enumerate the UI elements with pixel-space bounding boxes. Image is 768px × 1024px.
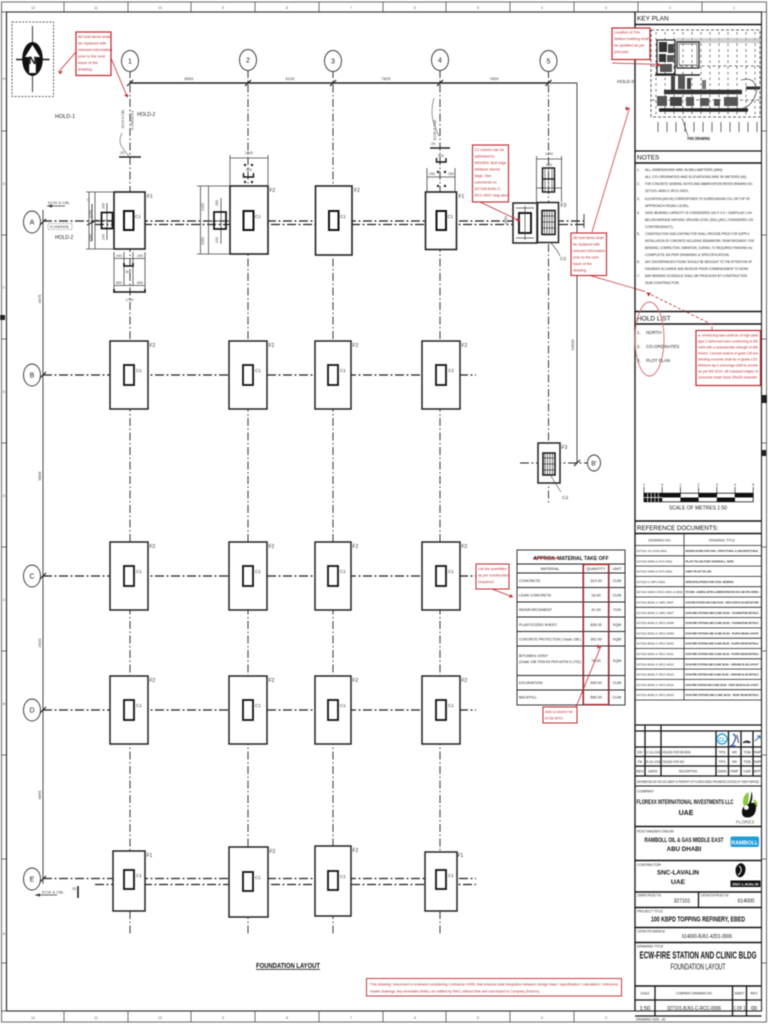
svg-text:DD: DD [637, 751, 643, 755]
svg-text:optimised to: optimised to [475, 155, 495, 159]
svg-text:REV: REV [751, 992, 759, 996]
ramboll logo [731, 837, 760, 848]
svg-text:3: 3 [716, 483, 718, 487]
svg-text:449.00: 449.00 [590, 681, 602, 685]
grid line 3 [332, 70, 334, 936]
right vertical dimension line 23500 [576, 83, 578, 463]
svg-text:blinding concrete shall be of: blinding concrete shall be of grade C20. [698, 358, 758, 362]
foundation F2 A3 [316, 186, 361, 255]
svg-text:23500: 23500 [570, 339, 575, 351]
svg-text:drawing.: drawing. [78, 67, 93, 72]
svg-text:850: 850 [116, 281, 122, 285]
svg-text:1 OF 1: 1 OF 1 [734, 1006, 746, 1012]
disclaimer strip [635, 785, 762, 787]
svg-text:7800: 7800 [490, 76, 500, 81]
svg-text:327101-C-SPC-0001: 327101-C-SPC-0001 [637, 580, 666, 584]
svg-text:C: C [87, 198, 90, 202]
svg-text:D: D [29, 708, 34, 715]
svg-text:be updated as per: be updated as per [614, 44, 645, 48]
svg-text:250: 250 [448, 172, 454, 176]
svg-text:SUB-CONTRACTOR.: SUB-CONTRACTOR. [645, 281, 680, 285]
svg-text:C1: C1 [255, 703, 261, 708]
svg-text:issue of the: issue of the [78, 60, 98, 65]
svg-text:5806: 5806 [37, 471, 42, 481]
svg-text:3.: 3. [637, 197, 640, 201]
svg-text:relevant information: relevant information [78, 47, 112, 52]
svg-text:DATE: DATE [648, 770, 658, 774]
red note box mid (can be optimised) [473, 145, 509, 202]
svg-text:CONTRACTOR: CONTRACTOR [637, 863, 661, 867]
revision table [635, 725, 762, 776]
svg-text:SAFE BEARING CAPACITY IS CONSI: SAFE BEARING CAPACITY IS CONSIDERED 343 … [645, 211, 752, 215]
svg-text:CAR: CAR [743, 770, 751, 774]
svg-text:DWN: DWN [718, 770, 727, 774]
A2 top dim 2000 [230, 155, 268, 186]
svg-text:240: 240 [137, 254, 143, 258]
svg-text:C1: C1 [340, 703, 346, 708]
svg-text:BITUMEN JOINT: BITUMEN JOINT [519, 654, 549, 658]
svg-text:327101-BJ61-C-RCC-0009: 327101-BJ61-C-RCC-0009 [637, 631, 675, 635]
svg-text:SQM: SQM [613, 623, 622, 627]
svg-text:ANY DISCREPANCIES FOUND SHOULD: ANY DISCREPANCIES FOUND SHOULD BE BROUGH… [645, 260, 753, 264]
svg-text:2920: 2920 [37, 638, 42, 648]
svg-text:FOUNDATION LAYOUT: FOUNDATION LAYOUT [671, 963, 726, 972]
svg-text:F2: F2 [353, 678, 359, 684]
svg-text:MATERIAL: MATERIAL [541, 567, 560, 571]
svg-text:FOUNDATION LAYOUT: FOUNDATION LAYOUT [256, 961, 320, 970]
svg-text:EXCAVATION: EXCAVATION [519, 681, 543, 685]
foundation F2 B4 [422, 341, 468, 409]
svg-text:Minimum lap & anchorage shall: Minimum lap & anchorage shall be provide [698, 364, 758, 368]
svg-text:1: 1 [128, 59, 132, 66]
svg-text:2.: 2. [637, 344, 641, 349]
svg-text:ECW & CBL: ECW & CBL [48, 200, 71, 205]
snc-lavalin logo [731, 863, 761, 887]
svg-text:1.: 1. [637, 168, 640, 172]
svg-text:DESCRIPTION: DESCRIPTION [679, 770, 697, 774]
svg-text:5: 5 [477, 1016, 479, 1020]
svg-text:A: A [30, 220, 35, 227]
svg-text:NOTES: NOTES [637, 155, 660, 162]
svg-text:3: 3 [331, 59, 335, 66]
svg-text:CO-ORDINATES: CO-ORDINATES [646, 344, 679, 349]
foundation F1 E2 [229, 847, 276, 917]
svg-text:CUM: CUM [613, 579, 622, 583]
svg-text:F2: F2 [269, 544, 275, 550]
svg-text:THIS DRAWING: THIS DRAWING [687, 136, 710, 141]
svg-text:REV: REV [636, 770, 644, 774]
right ruler ticks [762, 131, 767, 963]
A2 left dim band [197, 186, 230, 254]
red note box top-left [76, 32, 111, 76]
svg-text:SNC·LAVALIN: SNC·LAVALIN [732, 882, 759, 887]
svg-text:UAE: UAE [679, 810, 694, 817]
svg-text:F2: F2 [353, 343, 359, 349]
grid bubble 5 [540, 51, 557, 72]
row A left annotation EW &amp; CBL [47, 205, 65, 207]
svg-text:F2: F2 [150, 678, 156, 684]
svg-text:850: 850 [137, 281, 143, 285]
svg-text:BENDING, COMPACTION, VIBRATION: BENDING, COMPACTION, VIBRATION, CURING, … [645, 246, 753, 250]
svg-text:N: N [29, 55, 37, 67]
svg-text:KR: KR [732, 760, 737, 764]
foundation F3 B'5 [538, 443, 568, 501]
svg-text:C1: C1 [448, 569, 454, 574]
svg-text:C2: C2 [560, 256, 566, 262]
svg-text:6: 6 [414, 1016, 416, 1020]
red hold note box [696, 331, 761, 386]
svg-text:1: 1 [679, 483, 681, 487]
north arrow [32, 26, 34, 92]
svg-text:2: 2 [246, 58, 250, 65]
svg-text:1: 1 [643, 483, 645, 487]
svg-text:614000-BJ61-42D1-0006: 614000-BJ61-42D1-0006 [682, 934, 732, 940]
svg-text:C1: C1 [136, 569, 142, 574]
svg-text:4449 with a characteristic str: 4449 with a characteristic strength of 4… [698, 346, 758, 350]
svg-text:DESIGN BASIS FOR CIVIL, STRUCT: DESIGN BASIS FOR CIVIL, STRUCTURAL & ARC… [686, 549, 759, 553]
row bubble B [24, 364, 41, 386]
svg-text:5: 5 [547, 59, 551, 66]
grid line 2 [247, 70, 249, 936]
svg-text:ECW-FIRE STATION AND CLINIC BL: ECW-FIRE STATION AND CLINIC BLDG [640, 951, 757, 962]
svg-text:RCC-0007 dwg also.: RCC-0007 dwg also. [475, 194, 509, 198]
svg-text:3: 3 [605, 6, 607, 10]
svg-text:LEAN CONCRETE: LEAN CONCRETE [519, 594, 552, 598]
svg-text:5: 5 [477, 6, 479, 10]
foundation F1 A4 [426, 192, 465, 250]
svg-text:327101-0000-G-PLT-0001: 327101-0000-G-PLT-0001 [637, 559, 673, 563]
row centerline E [43, 878, 476, 880]
grid bubble 4 [432, 50, 449, 71]
A4 top dim 250/500 [427, 168, 455, 192]
svg-text:FA: FA [638, 760, 643, 764]
svg-text:6100: 6100 [286, 76, 296, 81]
left edge centring mark [0, 315, 5, 320]
svg-text:C1: C1 [136, 703, 142, 708]
A1 bottom dim detail [114, 252, 145, 293]
svg-text:APPROACH ROAD LEVEL.: APPROACH ROAD LEVEL. [645, 204, 690, 208]
svg-text:plot plan.: plot plan. [614, 50, 629, 54]
svg-text:be replaced with: be replaced with [78, 41, 106, 46]
svg-text:HOLD LIST: HOLD LIST [637, 316, 671, 323]
svg-text:STD DWG - GENERAL NOTES & ABBR: STD DWG - GENERAL NOTES & ABBREVATION FO… [686, 590, 759, 594]
svg-text:12: 12 [31, 6, 35, 10]
svg-text:7: 7 [350, 6, 352, 10]
red leader to building [612, 63, 661, 65]
svg-text:8: 8 [286, 6, 288, 10]
svg-text:327101-BJ61-C-RCC-0012: 327101-BJ61-C-RCC-0012 [637, 662, 675, 666]
svg-text:RAMBOLL OIL & GAS MIDDLE EAST: RAMBOLL OIL & GAS MIDDLE EAST [645, 837, 724, 844]
svg-text:C1: C1 [448, 703, 454, 708]
svg-text:TPS: TPS [719, 751, 727, 755]
svg-text:issue of the: issue of the [573, 262, 592, 266]
hold list header [635, 311, 762, 313]
svg-text:PLOT PLAN: PLOT PLAN [646, 358, 670, 363]
svg-text:327101-BJ61-C-RCC-0013: 327101-BJ61-C-RCC-0013 [637, 673, 675, 677]
svg-text:All hold items shall: All hold items shall [573, 236, 604, 240]
top dimension line [130, 82, 549, 84]
row centerline B [43, 374, 476, 376]
svg-text:KEY PLAN: KEY PLAN [637, 16, 669, 23]
hold items [637, 330, 679, 363]
bottom ruler band [2, 1010, 636, 1012]
svg-text:as per BS 8110. All exposed ed: as per BS 8110. All exposed edges of [698, 370, 759, 374]
foundation F2 D1 [110, 676, 156, 744]
svg-text:BELOW AVERAGE NATURAL GROUND L: BELOW AVERAGE NATURAL GROUND LEVEL (NGL)… [645, 218, 753, 222]
row centerline D [43, 709, 476, 711]
svg-text:2: 2 [698, 483, 700, 487]
red note box right of grid5 [571, 233, 607, 276]
svg-text:C1: C1 [255, 569, 261, 574]
svg-text:327101-BJ61-C-RCC-0011: 327101-BJ61-C-RCC-0011 [637, 652, 674, 656]
top ruler band [2, 11, 767, 13]
svg-text:2.: 2. [637, 182, 640, 186]
svg-text:RAMBOLL: RAMBOLL [731, 840, 759, 846]
svg-text:25: 25 [120, 151, 124, 155]
A1 left dim band [86, 192, 114, 249]
svg-text:1050: 1050 [504, 216, 508, 224]
foundation F3mid A between 4 and 5 [504, 203, 537, 243]
svg-text:C1: C1 [340, 874, 346, 879]
svg-text:sequence: sequence [478, 580, 494, 584]
svg-text:C1: C1 [255, 875, 261, 880]
svg-text:8500: 8500 [185, 76, 195, 81]
svg-text:SCALE: SCALE [641, 992, 651, 996]
svg-text:F2: F2 [354, 188, 360, 194]
svg-text:PROJECT MANAGEMENT CONSULTANT: PROJECT MANAGEMENT CONSULTANT [637, 830, 674, 834]
svg-text:4050: 4050 [89, 234, 93, 242]
svg-text:prior to the next: prior to the next [78, 54, 106, 59]
svg-text:ECW-FIRE STATION AND CLINIC BL: ECW-FIRE STATION AND CLINIC BLDG - FOUND… [686, 621, 759, 625]
svg-text:500: 500 [438, 154, 444, 158]
svg-text:4: 4 [541, 1016, 543, 1020]
svg-text:KR: KR [732, 751, 737, 755]
svg-text:327101-4400-C-RCC-0001.: 327101-4400-C-RCC-0001. [645, 189, 689, 193]
svg-text:SHEET: SHEET [735, 992, 745, 996]
svg-text:1: 1 [733, 6, 735, 10]
svg-text:C1: C1 [255, 214, 261, 219]
svg-text:F2: F2 [150, 343, 156, 349]
key plan caption [682, 118, 688, 136]
svg-text:N/mm2. Concrete shall be of gr: N/mm2. Concrete shall be of grade C35 an… [698, 352, 758, 356]
svg-text:327101-BJ61-C-RCC-0008: 327101-BJ61-C-RCC-0008 [637, 621, 675, 625]
svg-text:(Grade 10B ITEM AS PER ASTM D: (Grade 10B ITEM AS PER ASTM D 1751) [519, 660, 582, 664]
svg-text:X: X [752, 820, 755, 825]
25 tick at grid1 [119, 156, 141, 158]
svg-text:B: B [30, 373, 35, 380]
svg-text:10: 10 [158, 6, 162, 10]
svg-text:327101-BJ61-C-RCC-0006: 327101-BJ61-C-RCC-0006 [667, 1006, 721, 1012]
svg-text:TDB: TDB [743, 760, 751, 764]
svg-text:C1: C1 [136, 368, 142, 373]
svg-text:5: 5 [752, 483, 754, 487]
scale bar [644, 487, 753, 497]
svg-text:4.: 4. [637, 211, 640, 215]
red leader to grid 1 [111, 58, 128, 98]
svg-text:500: 500 [246, 168, 252, 172]
row E left annotation [35, 894, 57, 896]
svg-text:F2: F2 [353, 848, 359, 854]
project number row [698, 892, 700, 908]
reference table [635, 534, 762, 701]
svg-text:76.00: 76.00 [591, 659, 601, 663]
svg-text:ISSUED FOR IDC: ISSUED FOR IDC [663, 760, 685, 764]
svg-text:ECW-FIRE STATION AND CLINIC BL: ECW-FIRE STATION AND CLINIC BLDG - GROUN… [686, 662, 759, 666]
svg-text:B': B' [591, 461, 597, 468]
svg-text:SPECIFICATION FOR CIVIL WORKS: SPECIFICATION FOR CIVIL WORKS [686, 580, 734, 584]
svg-text:240: 240 [116, 254, 122, 258]
svg-text:List the quantities: List the quantities [478, 567, 507, 571]
svg-text:09-JUL-2018: 09-JUL-2018 [646, 760, 661, 764]
row bubble E [24, 868, 41, 890]
svg-text:as per construction: as per construction [478, 574, 509, 578]
left vertical dimension line [42, 210, 44, 884]
svg-text:7825: 7825 [382, 76, 392, 81]
row centerline A doubled [43, 220, 584, 222]
svg-text:ECW & CBL: ECW & CBL [42, 890, 65, 895]
svg-text:F2: F2 [269, 678, 275, 684]
svg-text:F1: F1 [458, 853, 464, 859]
svg-text:C2 column can be: C2 column can be [475, 148, 505, 152]
foundation F2 D3 [315, 676, 359, 744]
svg-text:DRAWING SIZE : A1: DRAWING SIZE : A1 [636, 1018, 666, 1022]
svg-text:10: 10 [158, 1016, 162, 1020]
svg-text:CONSTRUCTION SUB-CONTRACTOR SH: CONSTRUCTION SUB-CONTRACTOR SHALL PROVID… [645, 232, 750, 236]
svg-text:REINFORCEMENT: REINFORCEMENT [519, 608, 553, 612]
svg-text:C1: C1 [448, 214, 454, 219]
key plan lower tick comb [658, 122, 757, 132]
svg-text:COMPANY DRAWING NO: COMPANY DRAWING NO [676, 992, 712, 996]
svg-text:500x500. Bolt edge: 500x500. Bolt edge [475, 161, 507, 165]
svg-text:ALL DIMENSIONS ARE IN MILLIMET: ALL DIMENSIONS ARE IN MILLIMETERS (MM). [645, 168, 723, 172]
svg-text:ECW-FIRE STATION AND CLINIC BL: ECW-FIRE STATION AND CLINIC BLDG - PLINT… [686, 642, 759, 646]
svg-text:C1: C1 [255, 368, 261, 373]
key plan top hatch band [676, 38, 760, 43]
foundation F1 E4 [425, 852, 464, 911]
svg-text:400: 400 [546, 163, 552, 167]
svg-text:C2: C2 [562, 495, 568, 501]
grid line 5 [548, 70, 550, 505]
svg-text:1:50: 1:50 [640, 1006, 651, 1012]
svg-text:ALL CO-ORDINATES AND ELEVATION: ALL CO-ORDINATES AND ELEVATIONS ARE IN M… [645, 175, 747, 179]
svg-text:12: 12 [31, 1016, 35, 1020]
svg-text:INSTALLATION OF CONCRETE INCLU: INSTALLATION OF CONCRETE INCLUDING REBAR… [645, 239, 754, 243]
left ruler band [2, 131, 7, 963]
svg-text:7: 7 [350, 1016, 352, 1020]
svg-text:3: 3 [605, 1016, 607, 1020]
svg-text:8: 8 [286, 1016, 288, 1020]
svg-text:F2: F2 [270, 849, 276, 855]
red key plan box [612, 28, 650, 60]
svg-text:Add a column for: Add a column for [545, 710, 574, 714]
svg-text:ECW-FIRE STATION AND CLINIC BL: ECW-FIRE STATION AND CLINIC BLDG - GRD F… [686, 601, 760, 605]
svg-text:CUM: CUM [613, 696, 622, 700]
key plan dashed boundary [651, 30, 760, 117]
svg-text:ELEVATION (400.00) CORRESPONDS: ELEVATION (400.00) CORRESPONDS TO SURROU… [645, 197, 751, 201]
svg-text:327101-4400-C-RCC-0001 & 0002: 327101-4400-C-RCC-0001 & 0002 [637, 590, 683, 594]
svg-text:327101-BJ61-C-ARC-0007: 327101-BJ61-C-ARC-0007 [637, 601, 674, 605]
svg-text:PROJECT TITLE: PROJECT TITLE [637, 910, 664, 914]
svg-text:313.00: 313.00 [590, 579, 602, 583]
svg-text:500: 500 [126, 270, 132, 274]
svg-text:16.00: 16.00 [591, 594, 601, 598]
svg-text:F2: F2 [462, 343, 468, 349]
svg-text:ECW-FIRE STATION AND CLINIC BL: ECW-FIRE STATION AND CLINIC BLDG - ROOF … [686, 683, 759, 687]
svg-text:be replaced with: be replaced with [573, 243, 600, 247]
svg-text:drawing.: drawing. [573, 269, 587, 273]
svg-text:628.00: 628.00 [590, 623, 602, 627]
svg-text:7.: 7. [637, 274, 640, 278]
svg-text:CONTINGENCY).: CONTINGENCY). [645, 225, 674, 229]
svg-text:C: C [29, 574, 34, 581]
svg-text:CUM: CUM [613, 681, 622, 685]
panel left border [634, 12, 636, 1011]
svg-text:4475: 4475 [37, 294, 42, 304]
svg-text:11: 11 [94, 1016, 98, 1020]
svg-text:F2: F2 [462, 678, 468, 684]
svg-text:327101-JC-ACE-0001: 327101-JC-ACE-0001 [637, 549, 668, 553]
svg-text:ECW-FIRE STATION AND CLINIC BL: ECW-FIRE STATION AND CLINIC BLDG - PLINT… [686, 652, 759, 656]
svg-text:556.00: 556.00 [590, 696, 602, 700]
svg-text:17-JUL-2018: 17-JUL-2018 [646, 751, 661, 755]
svg-text:4955: 4955 [37, 790, 42, 800]
svg-text:RMP: RMP [753, 760, 762, 764]
svg-text:ABU DHABI: ABU DHABI [667, 846, 702, 853]
red note list quantities [476, 564, 509, 589]
revision rows [636, 751, 761, 774]
svg-text:G: G [3, 182, 6, 186]
svg-text:25: 25 [431, 142, 435, 146]
svg-text:260: 260 [215, 200, 219, 206]
svg-text:4: 4 [541, 6, 543, 10]
svg-text:PLOT PLAN FOR OVERALL SITE: PLOT PLAN FOR OVERALL SITE [686, 559, 734, 563]
svg-text:INFORMATION ON THIS DOCUMENT I: INFORMATION ON THIS DOCUMENT IS PROPERTY… [637, 780, 759, 784]
bottom row [635, 986, 762, 1016]
svg-text:ECW & CBL: ECW & CBL [121, 109, 125, 128]
svg-text:E: E [30, 877, 35, 884]
svg-text:RMP: RMP [753, 751, 762, 755]
svg-text:UNIT PLOT PLAN: UNIT PLOT PLAN [686, 570, 712, 574]
svg-text:HOLD-1: HOLD-1 [55, 114, 75, 120]
svg-text:F: F [3, 286, 5, 290]
svg-text:392.00: 392.00 [590, 638, 602, 642]
key plan column grid dashes [652, 32, 760, 115]
red leader from hold box up to key plan [592, 108, 630, 232]
foundation F1 E1 [113, 851, 153, 911]
svg-text:2: 2 [669, 6, 671, 10]
svg-text:BACKFILL: BACKFILL [519, 696, 537, 700]
svg-text:REFERENCE DOCUMENTS:: REFERENCE DOCUMENTS: [637, 525, 719, 532]
svg-text:N 2989406: N 2989406 [50, 225, 69, 229]
svg-text:DRAWING TITLE: DRAWING TITLE [709, 539, 736, 543]
svg-text:4: 4 [734, 483, 736, 487]
svg-text:large. See: large. See [475, 174, 492, 178]
svg-text:UAE: UAE [671, 879, 686, 886]
notes header band [635, 150, 762, 152]
svg-text:distance seems: distance seems [475, 168, 501, 172]
svg-text:COMPLETE AS PER DRAWING & SPEC: COMPLETE AS PER DRAWING & SPECIFICATION. [645, 253, 730, 257]
svg-text:SNC-LAVALIN: SNC-LAVALIN [657, 870, 699, 877]
row bubble D [24, 699, 41, 721]
svg-text:QUANTITY: QUANTITY [586, 567, 606, 571]
svg-text:comments on: comments on [475, 181, 497, 185]
svg-text:1.: 1. [637, 330, 641, 335]
svg-text:41.00: 41.00 [591, 608, 601, 612]
svg-text:0: 0 [661, 483, 663, 487]
red note add column [543, 707, 577, 723]
svg-text:327106-BJ61-C-: 327106-BJ61-C- [475, 187, 503, 191]
svg-text:CONTRACTOR DRAWING NO: CONTRACTOR DRAWING NO [637, 930, 665, 934]
